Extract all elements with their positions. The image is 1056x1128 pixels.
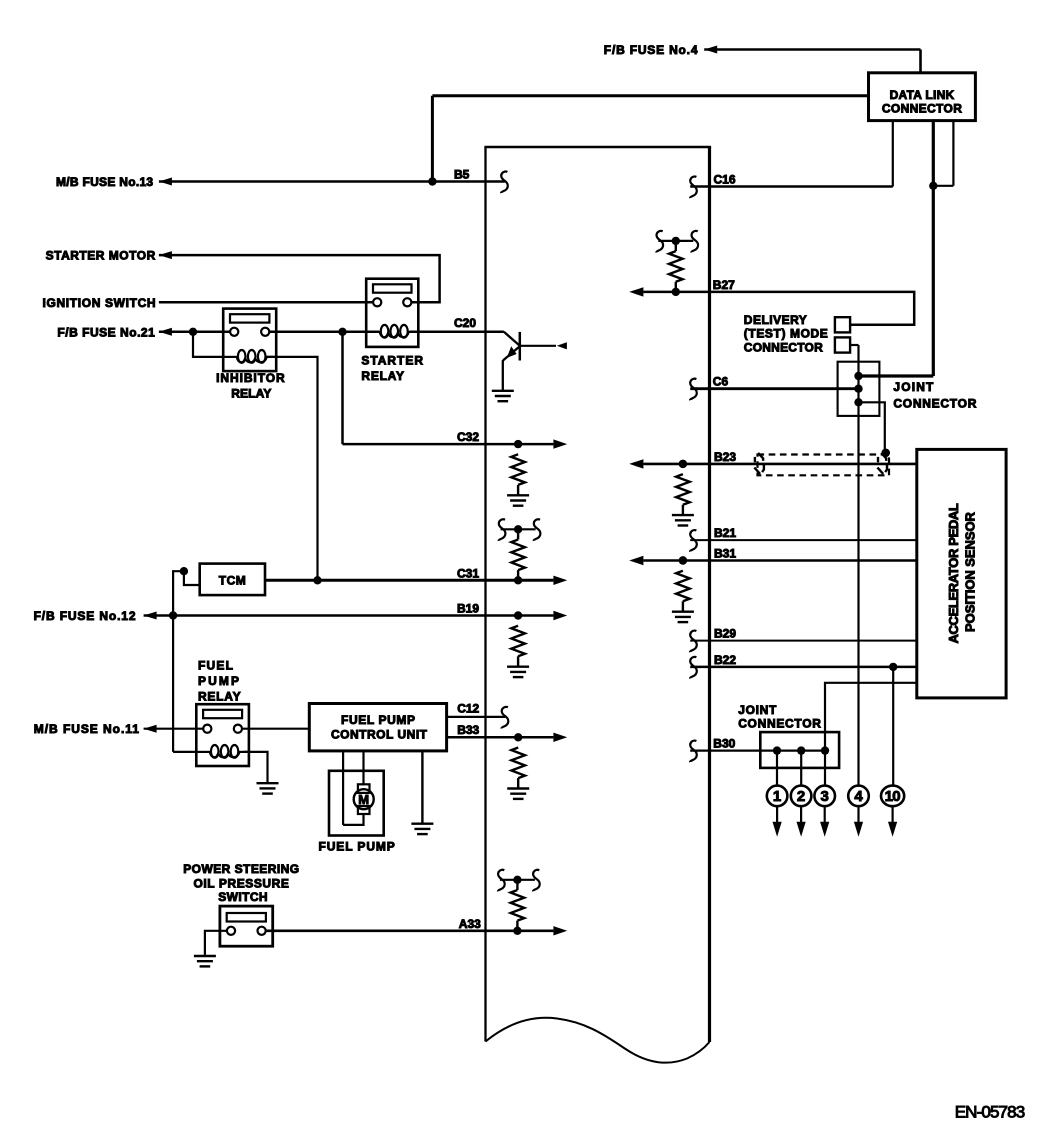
svg-text:IGNITION SWITCH: IGNITION SWITCH [43, 296, 156, 310]
svg-text:CONNECTOR: CONNECTOR [893, 397, 976, 411]
svg-text:JOINT: JOINT [738, 703, 777, 717]
svg-text:B19: B19 [457, 602, 479, 616]
svg-text:C32: C32 [457, 430, 479, 444]
svg-text:3: 3 [821, 788, 829, 805]
svg-text:OIL PRESSURE: OIL PRESSURE [194, 876, 289, 890]
svg-text:1: 1 [773, 788, 781, 805]
svg-text:B21: B21 [714, 526, 736, 540]
svg-text:M/B FUSE No.13: M/B FUSE No.13 [56, 175, 153, 189]
svg-text:JOINT: JOINT [893, 380, 934, 394]
svg-text:PUMP: PUMP [198, 674, 239, 688]
svg-text:STARTER: STARTER [361, 354, 423, 368]
svg-text:F/B FUSE No.4: F/B FUSE No.4 [604, 43, 698, 57]
svg-text:DATA LINK: DATA LINK [890, 88, 955, 102]
svg-text:F/B FUSE No.12: F/B FUSE No.12 [34, 609, 136, 623]
svg-text:10: 10 [885, 788, 901, 805]
svg-text:FUEL: FUEL [198, 659, 233, 673]
svg-text:RELAY: RELAY [361, 369, 404, 383]
svg-text:EN-05783: EN-05783 [955, 1102, 1025, 1121]
svg-text:DELIVERY: DELIVERY [744, 313, 807, 327]
svg-text:C20: C20 [454, 316, 476, 330]
svg-text:A33: A33 [459, 917, 481, 931]
svg-text:C6: C6 [713, 375, 729, 389]
svg-text:B27: B27 [713, 278, 735, 292]
svg-text:M/B FUSE No.11: M/B FUSE No.11 [34, 722, 139, 736]
svg-text:TCM: TCM [219, 574, 246, 588]
svg-text:B5: B5 [454, 168, 470, 182]
svg-text:4: 4 [854, 788, 863, 805]
svg-text:CONNECTOR: CONNECTOR [882, 101, 962, 115]
svg-text:CONNECTOR: CONNECTOR [738, 716, 821, 730]
svg-text:STARTER MOTOR: STARTER MOTOR [46, 248, 156, 262]
svg-text:2: 2 [797, 788, 805, 805]
svg-text:FUEL PUMP: FUEL PUMP [319, 840, 395, 854]
svg-text:B22: B22 [714, 653, 736, 667]
svg-text:F/B FUSE No.21: F/B FUSE No.21 [57, 326, 155, 340]
svg-text:SWITCH: SWITCH [218, 890, 267, 904]
svg-text:FUEL PUMP: FUEL PUMP [341, 713, 415, 727]
svg-text:C16: C16 [714, 173, 736, 187]
svg-text:B30: B30 [713, 737, 735, 751]
svg-text:(TEST) MODE: (TEST) MODE [744, 327, 828, 341]
svg-text:C31: C31 [457, 566, 479, 580]
svg-text:CONNECTOR: CONNECTOR [744, 340, 823, 354]
svg-text:POWER STEERING: POWER STEERING [183, 862, 299, 876]
svg-text:C12: C12 [457, 702, 479, 716]
svg-text:POSITION SENSOR: POSITION SENSOR [963, 511, 978, 632]
svg-text:B33: B33 [457, 723, 479, 737]
svg-text:CONTROL UNIT: CONTROL UNIT [331, 728, 428, 742]
svg-text:M: M [358, 792, 369, 807]
svg-text:B23: B23 [714, 450, 736, 464]
svg-text:RELAY: RELAY [231, 387, 271, 401]
svg-text:ACCELERATOR PEDAL: ACCELERATOR PEDAL [946, 503, 961, 643]
svg-text:INHIBITOR: INHIBITOR [216, 371, 285, 385]
svg-text:B31: B31 [714, 547, 736, 561]
svg-text:RELAY: RELAY [198, 690, 241, 704]
svg-text:B29: B29 [714, 627, 736, 641]
